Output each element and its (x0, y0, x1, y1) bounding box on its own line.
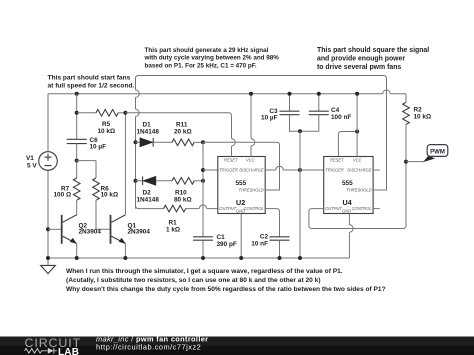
resistor R1 (164, 205, 186, 212)
node: Q2 base tap on V1 column (46, 227, 50, 231)
svg-text:When I run this through the si: When I run this through the simulator, I… (66, 268, 343, 275)
wire: hop of VCC column (251, 139, 255, 146)
node: C6 bottom junction (75, 159, 79, 163)
node: R11/R10 junction top (201, 140, 205, 144)
wire: R6 bottom to Q1 base (96, 200, 111, 229)
svg-text:10 nF: 10 nF (251, 240, 268, 247)
svg-text:D2: D2 (143, 189, 152, 196)
node: D1 tap on loop wire (134, 140, 138, 144)
svg-text:to drive several pwm fans: to drive several pwm fans (317, 64, 401, 71)
svg-text:TRIGGER: TRIGGER (219, 168, 238, 173)
svg-text:1 kΩ: 1 kΩ (166, 226, 180, 233)
wire: U4 GND to ground rail with hop over output loop (348, 214, 350, 259)
svg-text:OUTPUT: OUTPUT (325, 206, 342, 211)
label C6 (90, 137, 107, 151)
svg-text:R10: R10 (175, 189, 187, 196)
label R6 (101, 185, 119, 198)
wire: junction across to R6 top (77, 161, 96, 178)
diode D1 1N4148 (140, 138, 153, 147)
svg-text:390 pF: 390 pF (217, 241, 237, 248)
node: U2 GND junction (239, 256, 243, 260)
label C3 (261, 108, 278, 122)
wire: C2 bottom to ground rail (279, 240, 281, 258)
svg-text:555: 555 (236, 180, 247, 187)
node: C3 on rail (288, 92, 292, 96)
wire: D1 anode lead (136, 141, 141, 143)
wire: U2 DISCHARGE to node with hop over threshold column (265, 169, 300, 171)
ground (41, 258, 56, 274)
svg-text:GND: GND (236, 208, 245, 213)
wire: U2 VCC column from rail with hop over threshold feed line (250, 94, 252, 157)
svg-text:DISCHARGE: DISCHARGE (347, 168, 372, 173)
node: D2 tap on loop wire (134, 179, 138, 183)
svg-text:10 µF: 10 µF (90, 143, 107, 150)
wire: D2 cathode lead (136, 180, 143, 182)
wire: U2 GND to ground rail (240, 214, 242, 259)
svg-text:GND: GND (342, 208, 351, 213)
capacitor C3 (280, 94, 301, 132)
wire: R5 line to U2 RESET corner (125, 113, 231, 116)
flag PWM (423, 145, 448, 163)
node: x=300 rail at ground (298, 256, 302, 260)
node: Q1 emitter on ground rail (123, 256, 127, 260)
wire: R5 right lead to Q1 collector node (118, 112, 125, 114)
wire: C6 column from rail (76, 94, 78, 140)
node: C1 ground junction (201, 256, 205, 260)
wire: R11 right lead (194, 141, 203, 143)
wire: U4 CONTROL stub (373, 208, 380, 210)
wire: V1 column top (47, 94, 49, 152)
wire: U2 CONTROL to C2 (265, 209, 279, 237)
svg-text:10 µF: 10 µF (261, 115, 278, 122)
svg-text:5 V: 5 V (27, 162, 37, 169)
svg-text:U4: U4 (343, 198, 352, 207)
node: C2 ground junction (278, 256, 282, 260)
wire: U4 TRIGGER wire (300, 169, 324, 171)
svg-text:THRESHOLD: THRESHOLD (238, 188, 263, 193)
svg-text:10 kΩ: 10 kΩ (98, 128, 116, 135)
wire: U4 DISCHARGE stub (373, 169, 380, 171)
wire: bottom ground rail (48, 257, 349, 259)
svg-text:V1: V1 (26, 155, 34, 162)
node: ground rail / V1 junction (46, 256, 50, 260)
capacitor C2 (270, 237, 290, 240)
svg-text:with duty cycle varying betwee: with duty cycle varying between 2% and 9… (144, 55, 280, 62)
node: rail / C6-R5 column (75, 92, 79, 96)
svg-text:20 kΩ: 20 kΩ (174, 129, 192, 136)
svg-text:TRIGGER: TRIGGER (325, 168, 344, 173)
resistor R7 (73, 178, 80, 200)
svg-text:This part should generate a 29: This part should generate a 29 kHz signa… (145, 47, 269, 54)
svg-text:This part should square the si: This part should square the signal (317, 47, 429, 54)
label D1 (137, 121, 160, 135)
wire: R7 bottom to Q2 collector (76, 200, 78, 215)
node: C3/C4 bottom junction (298, 129, 302, 133)
node: Q2 emitter on ground rail (75, 256, 79, 260)
svg-text:DISCHARGE: DISCHARGE (239, 168, 264, 173)
wire: TRIGGER wire to U2 (203, 169, 218, 171)
svg-text:VCC: VCC (246, 158, 255, 163)
wire: hop of R1 line over x=203 (199, 205, 206, 209)
wire: C1 bottom to ground rail (202, 240, 204, 258)
wire: hop of loop wire over R5 line (136, 109, 140, 116)
wire: D1 cathode to R11 (153, 141, 172, 143)
wire: hop of RESET column (232, 139, 236, 146)
node: TRIGGER tap (201, 168, 205, 172)
svg-text:(Acutally, I substitute two re: (Acutally, I substitute two resistors, s… (66, 277, 321, 284)
wire: R2 bottom lead (405, 124, 407, 161)
wire: U4 VCC column from rail (356, 94, 358, 157)
capacitor C4 (300, 94, 329, 132)
svg-text:D1: D1 (143, 121, 152, 128)
node: R2 / PWM / output junction (404, 160, 408, 164)
wire: R5 left lead (77, 112, 96, 114)
node: C4 on rail (317, 92, 321, 96)
resistor R5 (96, 110, 118, 117)
label Q1 (128, 222, 151, 235)
label C1 (217, 234, 237, 248)
wire: hop on top rail over x=386.5 (383, 90, 390, 94)
svg-text:1N4148: 1N4148 (137, 197, 160, 204)
capacitor C1 (193, 237, 213, 240)
svg-text:OUTPUT: OUTPUT (219, 206, 236, 211)
svg-text:U2: U2 (236, 198, 245, 207)
diode D2 1N4148 (143, 176, 156, 185)
annotation: generate 29 kHz note (144, 47, 280, 70)
annotation: square the signal note (317, 47, 429, 71)
svg-text:LAB: LAB (58, 347, 79, 355)
wire: U4 RESET jog to VCC (338, 132, 357, 157)
label R11 (174, 121, 192, 135)
wire: U2 RESET column with hop over threshold feed line (231, 116, 233, 157)
svg-text:10 kΩ: 10 kΩ (101, 192, 119, 199)
label R7 (54, 185, 72, 198)
label R1 (166, 219, 180, 233)
resistor R11 (172, 139, 194, 146)
footer bar (0, 337, 474, 355)
transistor Q2 2N3904 (61, 215, 77, 258)
svg-text:PWM: PWM (430, 149, 445, 155)
svg-text:RESET: RESET (224, 158, 238, 163)
wire: threshold feed line y=142.3 (203, 142, 280, 190)
svg-text:Why doesn't this change the du: Why doesn't this change the duty cycle f… (66, 286, 386, 293)
wire: V1 column bottom to ground rail (47, 170, 49, 258)
node: discharge / U4 trigger junction (298, 168, 302, 172)
wire: hop of U4 GND column (349, 225, 353, 232)
svg-text:100 nF: 100 nF (331, 114, 351, 121)
node: U2 VCC on rail (249, 92, 253, 96)
wire: R1 line from loop corner to U2 OUTPUT with hop over C1 column (136, 205, 218, 209)
svg-text:80 kΩ: 80 kΩ (174, 197, 192, 204)
wire: hop of discharge line over x=279.5 (276, 166, 283, 170)
wire: rail corner into R2 (405, 94, 407, 103)
wire: C6 bottom to junction (76, 144, 78, 161)
node: U4 VCC on rail (355, 92, 359, 96)
wire: +5V top rail (48, 93, 406, 95)
wire: U4 OUTPUT loop to R2 bottom (309, 162, 406, 229)
voltage source V1 (39, 152, 58, 171)
wire: x=300 rail down to ground (299, 131, 301, 258)
svg-text:based on P1. For 25 kHz, C1 =: based on P1. For 25 kHz, C1 = 470 pF. (145, 62, 257, 69)
svg-text:R11: R11 (176, 121, 188, 128)
wire: Q2 base wire (48, 228, 62, 230)
svg-text:CONTROL: CONTROL (244, 206, 264, 211)
node: R11/R10 junction bottom (201, 179, 205, 183)
wire: Q1 collector up to R5 node (124, 113, 126, 216)
node: U4 RESET/VCC junction (355, 130, 359, 134)
svg-text:10 kΩ: 10 kΩ (414, 114, 432, 121)
svg-text:THRESHOLD: THRESHOLD (346, 188, 371, 193)
resistor R6 (93, 178, 100, 200)
capacitor C6 (67, 139, 87, 143)
label C2 (251, 234, 268, 248)
op-amp U2 555 box (218, 157, 265, 214)
wire: R10 right lead (194, 180, 203, 182)
node: R5 line left junction (75, 111, 79, 115)
wire: U4 THRESHOLD stub (connects loop wire) (373, 189, 386, 191)
node: R5 / Q1 collector junction (123, 111, 127, 115)
label R5 (98, 121, 116, 135)
logo resistor+diode (25, 348, 57, 354)
svg-text:and provide enough power: and provide enough power (317, 56, 405, 63)
label C4 (331, 107, 351, 121)
resistor R2 (403, 102, 410, 124)
resistor R10 (172, 178, 194, 185)
wire: R7 top stub (76, 161, 78, 178)
label Q2 (79, 222, 102, 235)
label D2 (137, 189, 160, 203)
svg-text:VCC: VCC (353, 158, 362, 163)
annotation: start fans note (48, 74, 135, 89)
wire: hop of loop wire over rail (136, 90, 140, 97)
transistor Q1 2N3904 (110, 215, 126, 258)
label R2 (414, 106, 432, 120)
svg-text:2N3904: 2N3904 (79, 229, 102, 236)
wire: PWM flag lead (406, 161, 424, 163)
svg-text:100 Ω: 100 Ω (54, 192, 72, 199)
wire: junction column x=203 down to C1 (202, 142, 204, 237)
svg-text:R2: R2 (414, 106, 423, 113)
svg-text:2N3904: 2N3904 (128, 229, 151, 236)
wire: D2 anode to R10 (156, 180, 172, 182)
svg-text:This part should start fans: This part should start fans (48, 74, 131, 81)
svg-text:CONTROL: CONTROL (352, 206, 372, 211)
svg-text:1N4148: 1N4148 (137, 129, 160, 136)
svg-text:at full speed for 1/2 second.: at full speed for 1/2 second. (48, 82, 135, 89)
svg-text:555: 555 (342, 180, 353, 187)
annotation: simulator question note (66, 268, 386, 293)
label R10 (174, 189, 192, 203)
op-amp U4 555 box (324, 157, 373, 214)
wire: top loop wire from D1/D2 node to U4 threshold (136, 76, 387, 209)
svg-text:R1: R1 (169, 219, 178, 226)
svg-text:http://circuitlab.com/c77jxz2: http://circuitlab.com/c77jxz2 (96, 343, 201, 352)
svg-text:RESET: RESET (330, 158, 344, 163)
label V1 (26, 155, 37, 169)
